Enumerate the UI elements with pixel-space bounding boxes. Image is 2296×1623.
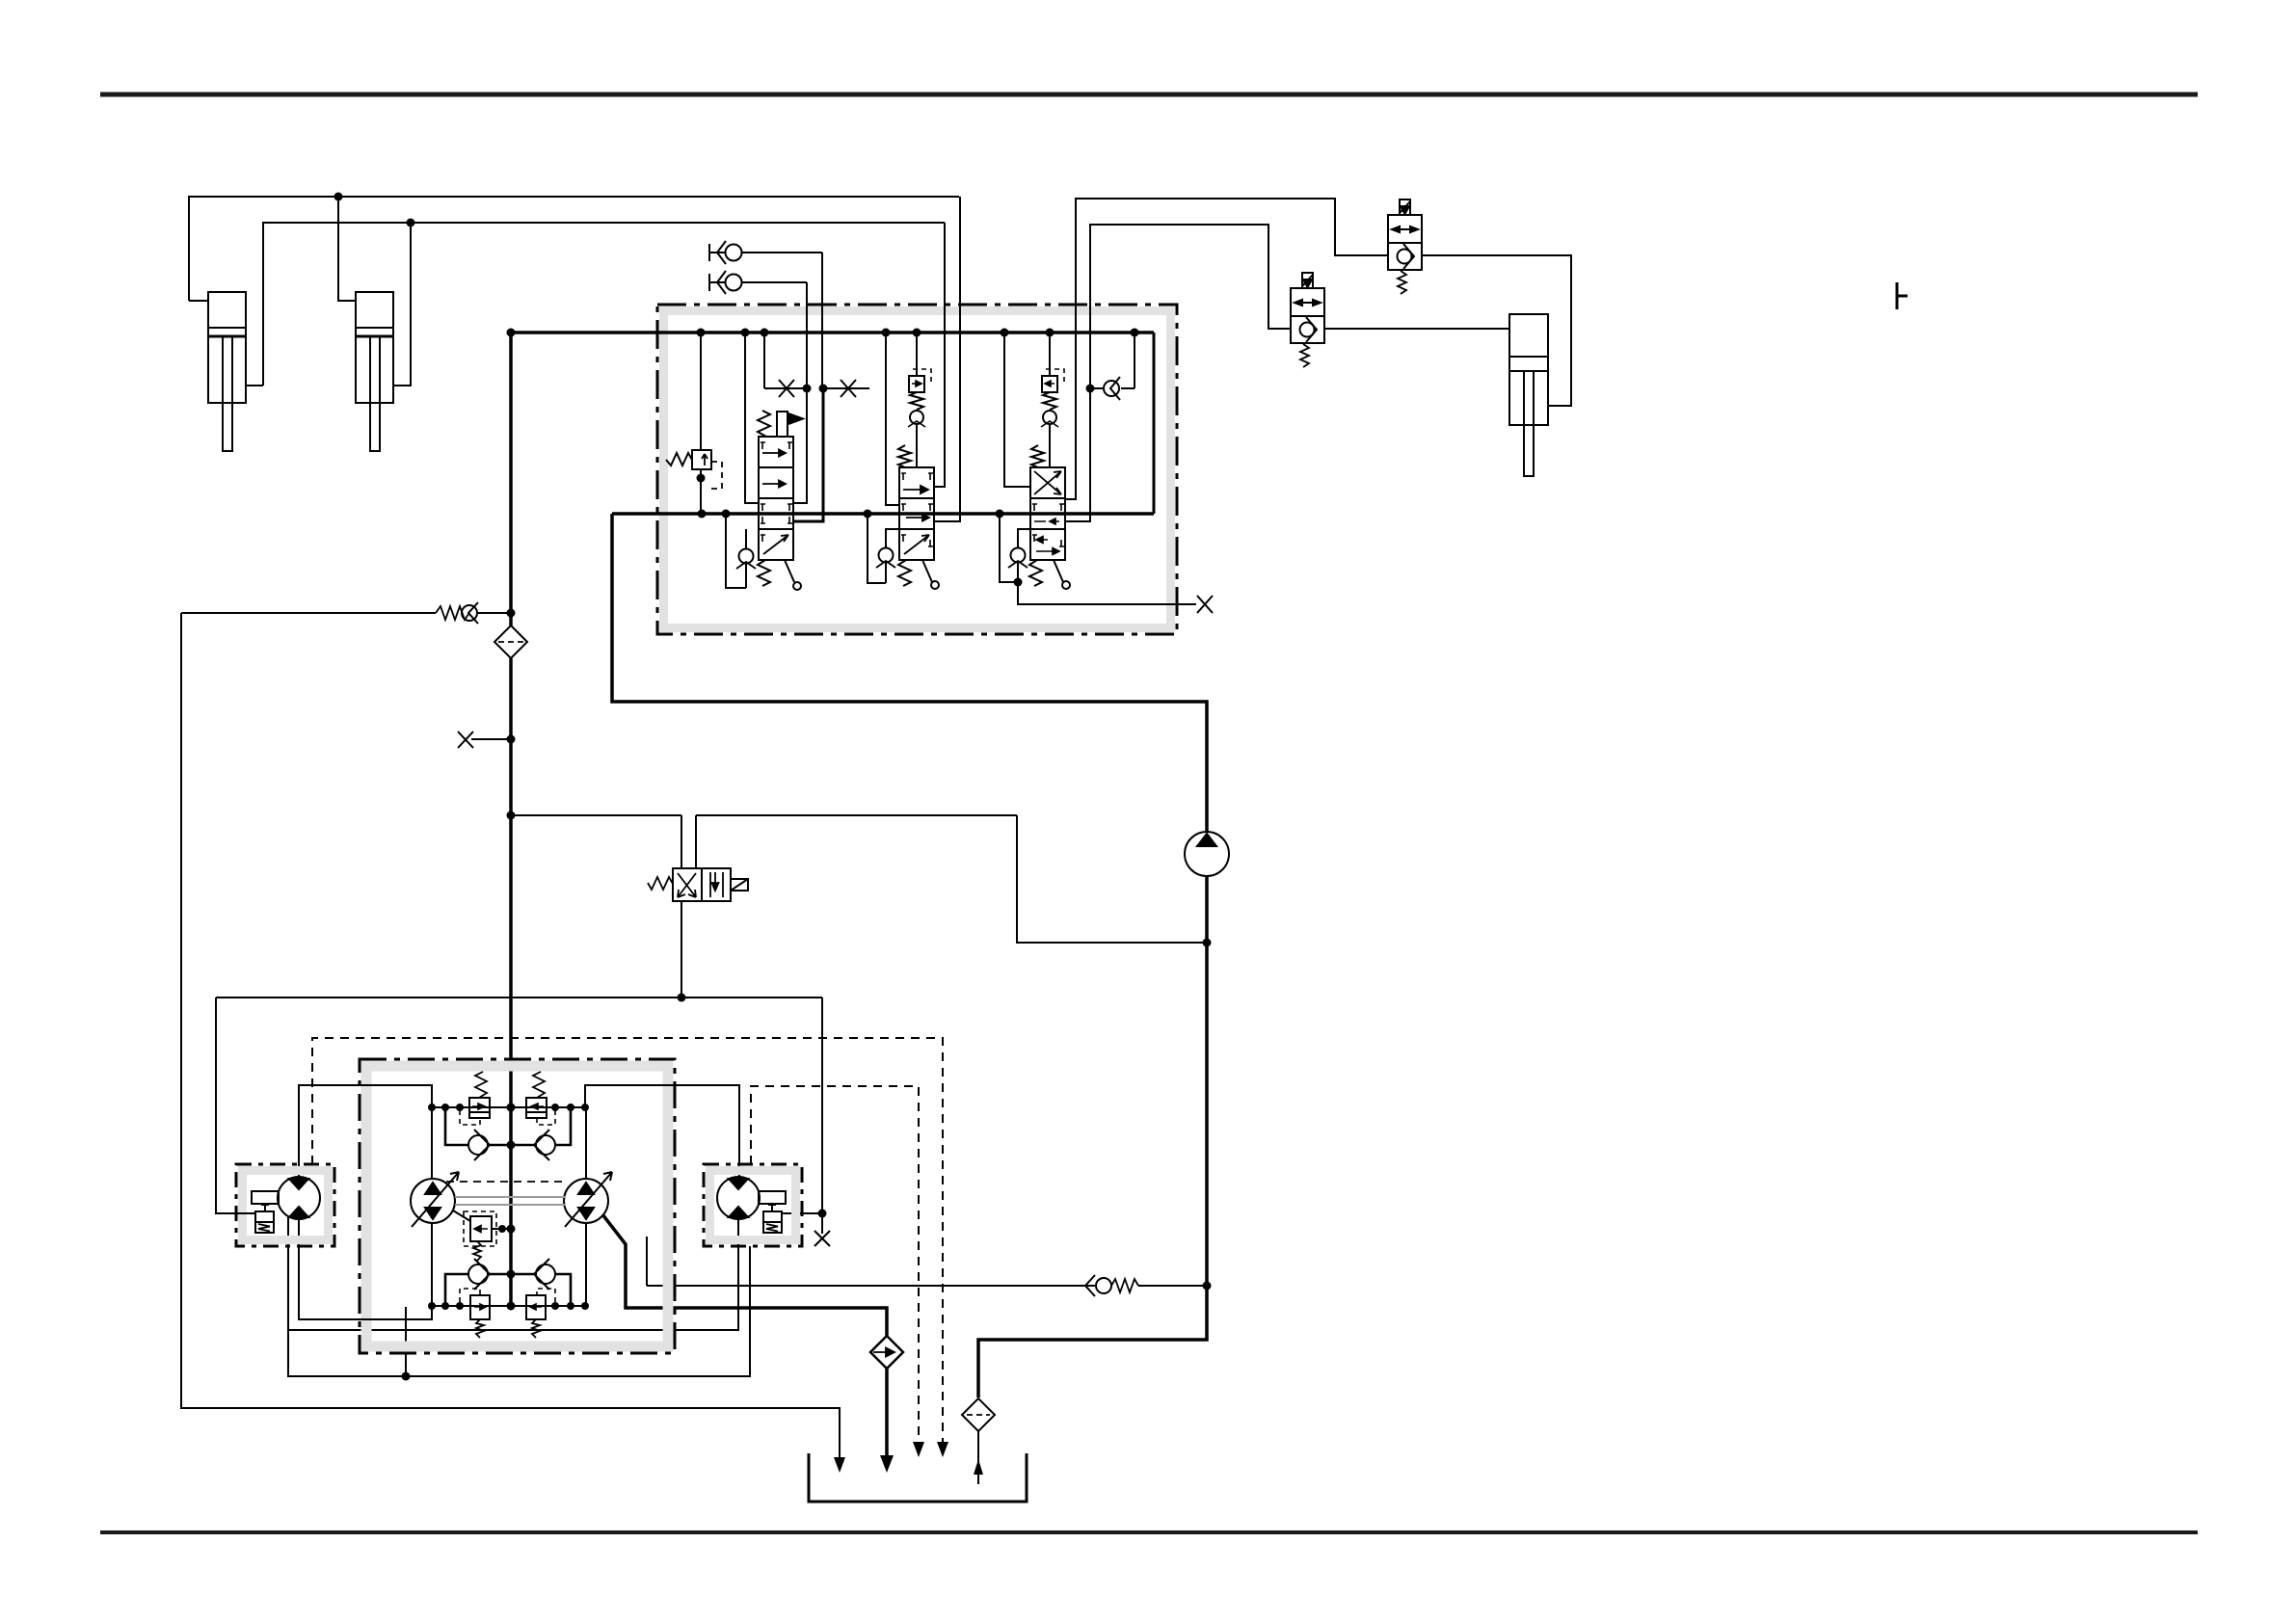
section2 anticavitation check xyxy=(868,514,899,583)
HST pump block gray ring xyxy=(366,1066,668,1346)
relief valve RV1 (inlet) xyxy=(666,333,722,514)
spool valve section 2 xyxy=(898,467,939,589)
top relief bus xyxy=(432,1106,585,1108)
hydraulic motor M1 xyxy=(216,1164,334,1246)
section2 left rail xyxy=(886,333,899,505)
charge pressure line (heavy vertical) xyxy=(509,333,513,625)
section1 plug stub with X ports xyxy=(764,333,869,397)
test port X xyxy=(458,732,516,748)
charge check CV4 xyxy=(647,1237,1207,1296)
check valve CV2 (top external) xyxy=(709,271,807,388)
tank xyxy=(809,1453,1027,1502)
wire cyl1 head port xyxy=(189,300,208,302)
bottom relief bus xyxy=(432,1305,585,1307)
wire valve B to cylinder head side xyxy=(1324,328,1509,330)
relief valve RB1 xyxy=(460,1289,490,1338)
solenoid pilot check valve A xyxy=(1388,200,1422,294)
solenoid directional valve DCV1 xyxy=(648,815,748,998)
bottom page rule xyxy=(100,1530,2198,1534)
top page rule xyxy=(100,93,2198,97)
section3 drain with test X xyxy=(1000,514,1213,613)
section3 right port rails xyxy=(1065,305,1076,499)
case drain dashed right xyxy=(751,1086,919,1444)
node T dots xyxy=(698,510,1004,519)
pump supply line (heavy) xyxy=(612,514,1207,832)
section3 left rail xyxy=(1004,333,1030,487)
relief valve RT2 xyxy=(526,1072,555,1125)
wire bus R2 from valve block to solenoid valve B xyxy=(1090,225,1291,329)
HST return to tank (heavy) xyxy=(602,1214,887,1336)
T bus rail xyxy=(612,512,1154,516)
check valve CV3 with spring xyxy=(181,602,516,624)
carryover rail right xyxy=(1153,333,1156,514)
node bus1-cyl2 xyxy=(334,193,343,201)
relief valve RT1 xyxy=(460,1072,490,1125)
wire bus R1 from valve block to solenoid valve A xyxy=(1076,199,1388,305)
section1 left rail xyxy=(745,333,759,503)
right motor feed xyxy=(585,1085,739,1177)
pump suction / drain line (heavy) xyxy=(978,876,1207,1397)
check valve CV1 (top external) xyxy=(709,241,822,388)
wire valve A to cylinder rod side xyxy=(1422,255,1571,406)
bottom makeup checks xyxy=(445,1259,571,1306)
wire cyl1 rod port xyxy=(246,385,263,386)
pump thru shaft xyxy=(455,1196,566,1198)
HST pump block boundary (dash-dot) xyxy=(360,1059,675,1353)
wire bus2 rod-side xyxy=(263,223,945,386)
solenoid pilot check valve B xyxy=(1291,273,1324,367)
suction filter F2 xyxy=(962,1398,995,1484)
spool valve section 1 xyxy=(758,411,803,590)
control valve block gray shading ring xyxy=(664,311,1171,628)
wire cyl2 rod port xyxy=(392,223,411,386)
case drain dashed left xyxy=(312,1038,943,1444)
left motor feed xyxy=(299,1085,432,1177)
section2 compensator xyxy=(898,333,931,467)
section2 work port drops xyxy=(934,223,945,487)
node on pump line xyxy=(1203,939,1212,947)
cylinder C3 (dump cylinder) xyxy=(1509,314,1548,476)
control valve block boundary (dash-dot) xyxy=(657,305,1177,634)
drain manifold lines xyxy=(288,1217,750,1381)
pilot line to motors xyxy=(216,994,830,1247)
left motor return xyxy=(299,1219,432,1319)
spool valve section 3 xyxy=(1029,467,1070,589)
section3 load check xyxy=(1086,333,1135,400)
top makeup checks xyxy=(445,1107,571,1160)
port mark xyxy=(1897,282,1908,309)
wire cyl2 head port xyxy=(338,197,356,301)
P bus rail xyxy=(511,331,1154,334)
HST pump right xyxy=(564,1107,612,1306)
node P dots xyxy=(507,329,1139,337)
cylinder C1 (left lift cylinder) xyxy=(208,292,246,451)
main pump P1 xyxy=(1185,832,1229,876)
node bus2-cyl2 xyxy=(407,219,415,227)
wire bus1 head-side xyxy=(189,197,959,301)
return line long left xyxy=(181,613,840,1459)
charge relief CR1 xyxy=(453,1211,516,1261)
relief valve RB2 xyxy=(526,1289,555,1338)
HST pump left xyxy=(411,1107,459,1306)
section1 anticavitation check xyxy=(726,514,756,588)
cylinder C2 (right lift cylinder) xyxy=(356,292,393,451)
return filter F3 xyxy=(870,1336,903,1369)
hydraulic motor M2 xyxy=(704,1164,802,1246)
swash pilot dashed xyxy=(446,1181,564,1183)
section3 compensator xyxy=(1031,333,1064,467)
filter F1 xyxy=(494,625,527,658)
section1 right rails xyxy=(793,388,807,503)
unloading valve pilot line xyxy=(507,811,1208,944)
